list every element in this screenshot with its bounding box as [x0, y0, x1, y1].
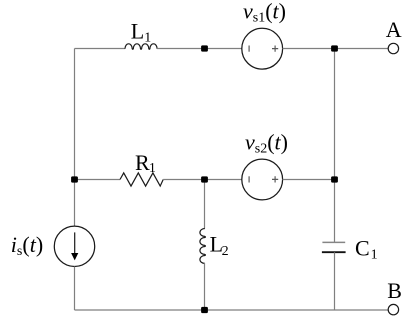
svg-text:R: R — [135, 150, 150, 175]
wire middle node to vs2 — [205, 179, 243, 181]
wire top between node and vs1 — [204, 48, 242, 50]
svg-text:vs2(t): vs2(t) — [245, 130, 288, 157]
svg-text:is(t): is(t) — [11, 232, 43, 259]
wire middle R1 to node — [163, 179, 204, 181]
capacitor C1 bottom plate — [322, 251, 346, 253]
wire right vertical upper — [334, 49, 336, 180]
svg-text:C: C — [355, 235, 370, 260]
inductor L1 — [125, 44, 157, 50]
voltage source vs2 circle — [242, 159, 283, 200]
svg-text:1: 1 — [371, 248, 378, 263]
vs2 minus terminal mark — [248, 176, 250, 182]
wire L2 branch lower — [204, 263, 206, 310]
wire middle left to R1 — [75, 179, 121, 181]
svg-text:1: 1 — [144, 31, 151, 46]
vs1 minus terminal mark — [248, 46, 250, 52]
junction dot top right — [331, 45, 338, 51]
terminal B circle — [388, 304, 398, 314]
wire L2 branch upper — [204, 180, 206, 229]
current source is circle — [54, 226, 94, 266]
inductor L2 — [200, 229, 206, 264]
is arrow — [74, 232, 76, 254]
capacitor C1 top plate — [322, 241, 345, 243]
svg-text:1: 1 — [149, 161, 156, 176]
svg-text:2: 2 — [222, 244, 229, 259]
junction dot on top wire — [201, 45, 208, 51]
wire left vertical upper — [74, 49, 76, 227]
wire top between L1 and node — [157, 48, 204, 50]
junction dot left middle — [71, 176, 78, 182]
terminal A circle — [388, 43, 398, 53]
junction dot middle right — [331, 176, 338, 182]
wire top to terminal A — [335, 48, 389, 50]
voltage source vs1 circle — [242, 28, 283, 69]
vs1 plus terminal mark — [272, 46, 278, 52]
wire right vertical to capacitor — [334, 180, 336, 243]
wire bottom horizontal — [75, 309, 389, 311]
svg-text:A: A — [386, 17, 402, 42]
junction dot middle center — [201, 176, 208, 182]
svg-text:L: L — [131, 18, 144, 43]
resistor R1 — [120, 173, 163, 186]
wire right vertical below capacitor — [334, 252, 336, 310]
wire middle vs2 to right node — [283, 179, 335, 181]
svg-text:vs1(t): vs1(t) — [243, 0, 286, 25]
wire top between vs1 and right node — [283, 48, 335, 50]
wire top-left horizontal (left corner to L1) — [75, 48, 126, 50]
junction dot bottom center — [201, 307, 208, 313]
wire left vertical lower — [74, 267, 76, 311]
vs2 plus terminal mark — [272, 176, 278, 182]
svg-text:B: B — [387, 278, 402, 303]
